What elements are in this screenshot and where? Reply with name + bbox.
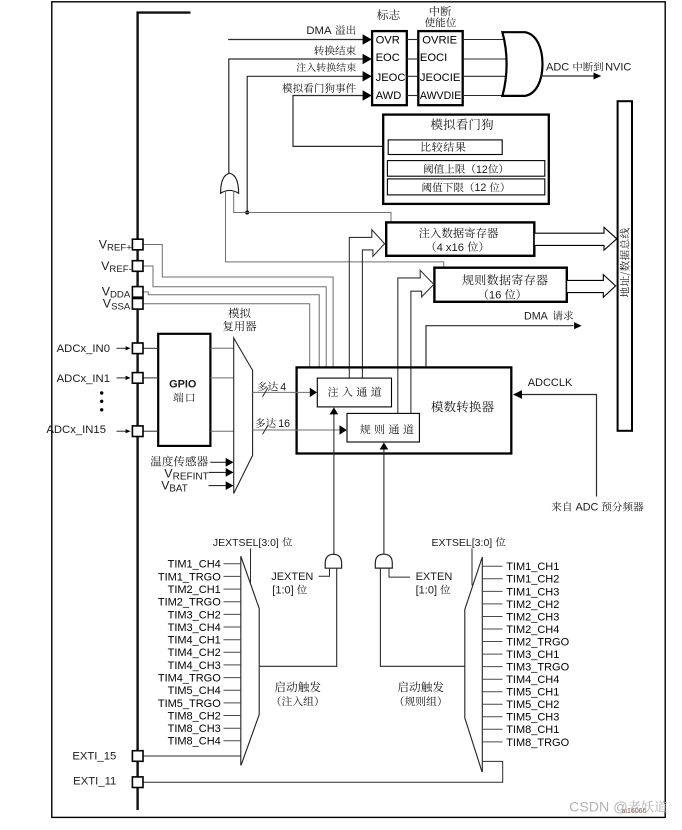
svg-text:AWVDIE: AWVDIE (420, 90, 461, 102)
pin VREF+ (132, 239, 143, 250)
wire TIM1_CH4 input (224, 563, 241, 565)
wire TIM2_CH3 input (482, 616, 502, 618)
or-gate ADC interrupt (502, 32, 542, 96)
wire TIM5_CH3 input (482, 716, 502, 718)
wire EXTI_15 input (143, 755, 241, 757)
label up to 16 (256, 418, 265, 428)
svg-text:ADC: ADC (546, 62, 569, 74)
wire TIM5_CH1 input (482, 691, 502, 693)
svg-text:TIM1_CH4: TIM1_CH4 (168, 559, 221, 571)
svg-text:EXTI_11: EXTI_11 (73, 775, 116, 787)
box injected channels (317, 378, 391, 407)
svg-text:TIM3_CH4: TIM3_CH4 (168, 622, 221, 634)
wire TIM5_CH4 input (224, 689, 241, 691)
label compare result (421, 142, 430, 152)
svg-text:EOC: EOC (376, 52, 400, 64)
and-gate JEXTEN (325, 554, 341, 568)
svg-text:TIM1_TRGO: TIM1_TRGO (158, 571, 221, 583)
svg-text:GPIO: GPIO (169, 378, 197, 390)
register box regular data register 16-bit (434, 268, 566, 302)
svg-text:ADCCLK: ADCCLK (528, 377, 573, 389)
svg-text:TIM1_CH3: TIM1_CH3 (506, 586, 559, 598)
wire flags to enable connectors (407, 39, 419, 41)
svg-text:AWD: AWD (376, 90, 402, 102)
node junction JEOC/injected-EOC (245, 211, 249, 215)
svg-text:TIM3_CH2: TIM3_CH2 (168, 609, 221, 621)
box compare result (388, 140, 502, 155)
svg-text:TIM5_CH3: TIM5_CH3 (506, 712, 559, 724)
wire ADCx_IN1 label arrow (117, 377, 127, 379)
wire TIM1_TRGO input (224, 575, 241, 577)
svg-text:TIM4_TRGO: TIM4_TRGO (158, 673, 221, 685)
bus arrow regular channels to regular data register (398, 270, 434, 413)
label analog mux (228, 308, 239, 318)
pin ADCx_IN0 (132, 343, 143, 354)
wire ADCx_IN1 to GPIO and mux (143, 377, 158, 379)
label from ADC prescaler (552, 502, 562, 512)
mux JEXTSEL injected trigger select (241, 556, 259, 765)
wire TIM1_CH2 input (482, 578, 502, 580)
wire VREFINT input (209, 471, 226, 473)
wire EOC input (229, 59, 364, 173)
svg-text:TIM3_TRGO: TIM3_TRGO (506, 662, 569, 674)
wire EXTSEL label leader (471, 549, 473, 586)
svg-text:TIM5_CH1: TIM5_CH1 (506, 687, 559, 699)
svg-text:ADC: ADC (576, 502, 599, 514)
label interrupt enable title (430, 6, 439, 16)
label flags title (377, 9, 388, 20)
label end of injected conversion (297, 63, 306, 72)
svg-text:TIM4_CH4: TIM4_CH4 (506, 674, 559, 686)
label regular channels (360, 424, 370, 434)
wire EOC or-gate left input from regular data register (226, 191, 444, 268)
wire ADCx_IN15 to GPIO and mux (143, 430, 158, 432)
pin ADCx_IN15 (132, 426, 143, 437)
wire TIM2_CH4 input (482, 628, 502, 630)
wire temperature sensor input (210, 461, 226, 463)
box regular channels (347, 413, 419, 442)
label start trigger injected group (275, 681, 285, 692)
svg-text:[1:0]: [1:0] (416, 585, 437, 597)
mux analog multiplexer (234, 338, 253, 494)
wire TIM5_CH2 input (482, 703, 502, 705)
svg-text:TIM4_CH2: TIM4_CH2 (168, 647, 221, 659)
svg-text:TIM2_TRGO: TIM2_TRGO (506, 636, 569, 648)
wire ADCx_IN0 to GPIO and mux (143, 347, 158, 349)
wire TIM3_TRGO input (482, 666, 502, 668)
wire injected trigger into injected channels (333, 414, 335, 554)
svg-text:TIM8_TRGO: TIM8_TRGO (506, 737, 569, 749)
block analog to digital converter (297, 367, 512, 453)
wire VREF- (143, 266, 326, 367)
box lower threshold 12-bit (387, 179, 544, 195)
svg-text:NVIC: NVIC (605, 62, 631, 74)
svg-text:TIM4_CH1: TIM4_CH1 (168, 635, 221, 647)
wire DMA request (426, 326, 574, 367)
block GPIO port (158, 334, 210, 446)
label address/data bus (620, 228, 631, 297)
register box flags (OVR EOC JEOC AWD) (372, 31, 407, 105)
svg-text:EXTEN: EXTEN (416, 571, 453, 583)
svg-text:[1:0]: [1:0] (272, 585, 293, 597)
and-gate EXTEN (375, 554, 392, 568)
wire VREF+ (143, 245, 333, 368)
wire TIM4_TRGO input (224, 677, 241, 679)
wire TIM3_CH1 input (482, 653, 502, 655)
wire OVR input (DMA overflow) (228, 39, 363, 41)
label regular data register (462, 274, 473, 285)
pin EXTI_11 (132, 777, 143, 788)
svg-text:TIM2_CH2: TIM2_CH2 (506, 599, 559, 611)
wire TIM4_CH1 input (224, 639, 241, 641)
label ADC converter (431, 401, 443, 412)
pin EXTI_15 (132, 751, 143, 762)
wire JEXTEN connector (319, 568, 330, 576)
wire regular trigger into regular channels (383, 449, 385, 554)
watermark CSDN (569, 800, 667, 816)
svg-text:TIM4_CH3: TIM4_CH3 (168, 660, 221, 672)
wire TIM8_CH3 input (224, 727, 241, 729)
pin ADCx_IN1 (132, 373, 143, 384)
svg-text:TIM5_CH2: TIM5_CH2 (506, 699, 559, 711)
bus arrow injected data to addr/data bus (535, 227, 617, 250)
block analog watchdog (383, 115, 549, 204)
svg-text:TIM8_CH3: TIM8_CH3 (168, 723, 221, 735)
label injected data registers (419, 228, 430, 238)
slash up-to-4 (263, 388, 269, 397)
svg-text:16: 16 (278, 418, 290, 430)
wire ADCx_IN15 label arrow (117, 430, 127, 432)
svg-text:TIM1_CH1: TIM1_CH1 (506, 561, 559, 573)
svg-text:TIM1_CH2: TIM1_CH2 (506, 574, 559, 586)
svg-text:ADCx_IN1: ADCx_IN1 (57, 373, 110, 385)
svg-text:REF+: REF+ (107, 243, 132, 254)
svg-text:ADCx_IN15: ADCx_IN15 (46, 424, 106, 436)
wire chip top bracket (138, 13, 191, 810)
svg-text:DMA: DMA (306, 25, 332, 37)
pin VREF- (132, 261, 143, 272)
mux EXTSEL regular trigger select (465, 557, 483, 771)
wire enable to or-gate connectors (463, 39, 505, 41)
svg-text:ADCx_IN0: ADCx_IN0 (57, 343, 110, 355)
svg-text:4 x16: 4 x16 (437, 242, 464, 254)
wire TIM4_CH2 input (224, 651, 241, 653)
wire TIM1_CH3 input (482, 590, 502, 592)
wire regular trigger output (380, 568, 464, 666)
bus arrow regular data to addr/data bus (567, 275, 615, 298)
wire AWD input (analog watchdog event) (293, 96, 388, 147)
svg-text:TIM8_CH2: TIM8_CH2 (168, 710, 221, 722)
svg-text:TIM8_CH1: TIM8_CH1 (506, 724, 559, 736)
wire EXTEN connector (389, 568, 410, 577)
label end of conversion (314, 45, 324, 55)
label start trigger regular group (398, 681, 408, 692)
label injected channels (328, 387, 338, 397)
svg-text:TIM2_CH1: TIM2_CH1 (168, 584, 221, 596)
label analog watchdog title (431, 119, 443, 130)
wire TIM8_CH2 input (224, 715, 241, 717)
wire ADCx_IN0 label arrow (117, 347, 127, 349)
svg-text:16: 16 (489, 290, 501, 302)
wire TIM2_CH1 input (224, 588, 241, 590)
svg-text:CSDN @: CSDN @ (569, 800, 628, 816)
svg-text:DMA: DMA (524, 311, 549, 323)
wire TIM2_CH2 input (482, 603, 502, 605)
wire TIM2_TRGO input (482, 641, 502, 643)
wire TIM1_CH1 input (482, 565, 502, 567)
wire ADC interrupt to NVIC (541, 75, 594, 77)
svg-text:TIM5_TRGO: TIM5_TRGO (158, 698, 221, 710)
bus bar address/data bus (618, 101, 632, 431)
svg-text:TIM2_CH3: TIM2_CH3 (506, 611, 559, 623)
wire VBAT input (209, 485, 227, 487)
svg-text:SSA: SSA (111, 302, 131, 313)
wire TIM3_CH2 input (224, 613, 241, 615)
svg-text:OVRIE: OVRIE (422, 34, 457, 46)
svg-text:EXTSEL[3:0]: EXTSEL[3:0] (432, 537, 493, 549)
svg-text:EXTI_15: EXTI_15 (72, 750, 116, 762)
wire TIM4_CH3 input (224, 664, 241, 666)
svg-text:EOCI: EOCI (420, 52, 447, 64)
svg-text:BAT: BAT (169, 484, 187, 495)
svg-text:4: 4 (280, 381, 286, 393)
label upper threshold (424, 164, 433, 174)
svg-text:TIM5_CH4: TIM5_CH4 (168, 685, 221, 697)
svg-text:REF-: REF- (109, 264, 131, 275)
register box interrupt enable bits (418, 31, 462, 105)
svg-text:TIM2_CH4: TIM2_CH4 (506, 624, 559, 636)
register box injected data registers 4x16 (386, 222, 534, 255)
wire injected trigger output (259, 568, 337, 666)
wire up-to-4 mux to injected channels (253, 391, 310, 393)
svg-text:TIM8_CH4: TIM8_CH4 (168, 736, 221, 748)
node ellipsis dots (100, 391, 103, 394)
wire EOC or-gate right input from injected data register (234, 191, 391, 223)
wire TIM4_CH4 input (482, 678, 502, 680)
slash up-to-16 (263, 425, 269, 434)
wire TIM2_TRGO input (224, 601, 241, 603)
svg-text:TIM3_CH1: TIM3_CH1 (506, 649, 559, 661)
svg-text:OVR: OVR (376, 34, 400, 46)
wire TIM3_CH4 input (224, 626, 241, 628)
wire TIM8_TRGO input (482, 741, 502, 743)
wire up-to-16 mux to regular channels (253, 429, 340, 431)
wire JEOC input (247, 76, 363, 212)
svg-text:JEOCIE: JEOCIE (420, 72, 460, 84)
or-gate EOC combine (221, 173, 239, 193)
wire EXTI_11 input (143, 761, 503, 782)
svg-text:DDA: DDA (110, 290, 131, 301)
wire TIM5_TRGO input (224, 702, 241, 704)
svg-text:12: 12 (475, 182, 487, 194)
svg-text:JEXTEN: JEXTEN (271, 571, 313, 583)
wire TIM8_CH4 input (224, 740, 241, 742)
pin VSSA (132, 299, 143, 310)
wire VDDA (143, 292, 319, 367)
svg-text:REFINT: REFINT (173, 472, 209, 483)
wire ADCCLK from prescaler (522, 395, 597, 497)
svg-text:TIM2_TRGO: TIM2_TRGO (158, 597, 221, 609)
pin VDDA (132, 287, 143, 298)
wire JEXTSEL label leader (250, 549, 252, 584)
svg-text:12: 12 (476, 164, 488, 176)
svg-text:JEOC: JEOC (376, 72, 406, 84)
box upper threshold 12-bit (387, 161, 544, 177)
label temperature sensor (151, 456, 162, 467)
wire TIM8_CH1 input (482, 728, 502, 730)
svg-text:JEXTSEL[3:0]: JEXTSEL[3:0] (213, 537, 279, 549)
bus arrow injected channels to injected data registers (349, 230, 384, 378)
label up to 4 (258, 382, 267, 392)
wire VSSA (143, 304, 310, 367)
label analog watchdog event (282, 83, 292, 93)
label lower threshold (423, 182, 432, 192)
